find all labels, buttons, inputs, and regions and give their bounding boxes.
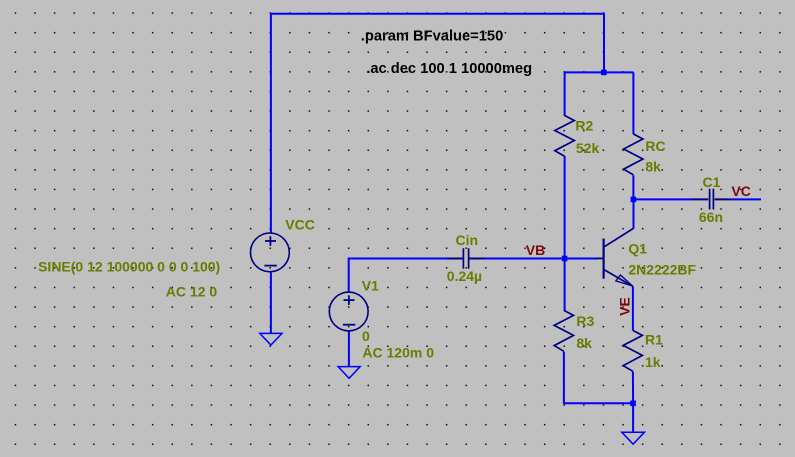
wire: R2 bottom lead to VB node xyxy=(564,156,566,259)
svg-text:C1: C1 xyxy=(703,174,721,190)
voltage source VCC xyxy=(251,233,290,272)
svg-text:8k: 8k xyxy=(576,335,592,351)
svg-text:V1: V1 xyxy=(362,277,379,293)
svg-text:VE: VE xyxy=(617,297,633,316)
resistor R3 xyxy=(554,310,573,351)
ground below bottom node xyxy=(622,432,645,444)
wire: VB node down to R3 xyxy=(564,259,566,311)
resistor R2 xyxy=(555,116,575,157)
wire: C1 right plate to VC stub end xyxy=(731,198,761,200)
resistor R1 xyxy=(623,330,642,371)
svg-text:8k: 8k xyxy=(645,159,661,175)
svg-text:SINE(0 12 100000 0 0 0 100): SINE(0 12 100000 0 0 0 100) xyxy=(38,259,220,275)
voltage source V1 xyxy=(329,292,368,331)
svg-text:66n: 66n xyxy=(699,209,723,225)
wire: RC top lead xyxy=(632,72,634,134)
svg-text:52k: 52k xyxy=(576,140,600,156)
wire: V1 source bottom to ground xyxy=(348,331,350,367)
wire: collector node to C1 left plate xyxy=(633,198,692,200)
svg-text:1k: 1k xyxy=(645,354,661,370)
svg-text:R1: R1 xyxy=(645,332,663,348)
svg-text:R3: R3 xyxy=(576,313,594,329)
transistor Q1 xyxy=(596,228,634,286)
capacitor Cin xyxy=(447,248,485,269)
svg-text:.param BFvalue=150: .param BFvalue=150 xyxy=(361,28,503,44)
wire: Cin right plate to VB node to base xyxy=(485,258,599,260)
ground below VCC xyxy=(260,333,282,345)
wire: split horizontal over R2 and RC xyxy=(565,71,634,73)
wire: R1 bottom lead to bottom node xyxy=(632,372,634,404)
junction: bottom node xyxy=(630,401,636,407)
wire: left drop to VCC source xyxy=(270,14,272,233)
svg-text:VCC: VCC xyxy=(285,217,315,233)
junction: collector / C1 node xyxy=(631,197,637,203)
svg-text:2N2222BF: 2N2222BF xyxy=(628,261,696,277)
svg-text:RC: RC xyxy=(645,138,665,154)
resistor RC xyxy=(624,134,643,175)
svg-text:0: 0 xyxy=(362,328,370,344)
ground below V1 xyxy=(338,367,360,379)
junction: VB node xyxy=(562,256,568,262)
wire: top rail VCC to main drop xyxy=(271,14,604,73)
capacitor C1 xyxy=(692,189,731,210)
svg-text:0.24µ: 0.24µ xyxy=(447,268,482,284)
wire: R2 top lead xyxy=(564,72,566,116)
wire: R3 bottom lead, corner, to bottom node xyxy=(564,352,633,404)
wire: emitter down to R1 xyxy=(632,286,634,330)
svg-text:AC 12 0: AC 12 0 xyxy=(166,283,218,299)
svg-text:AC 120m 0: AC 120m 0 xyxy=(362,345,434,361)
wire: RC bottom lead to collector node xyxy=(632,175,634,199)
svg-text:Q1: Q1 xyxy=(628,240,647,256)
wire: collector vertical xyxy=(633,199,635,228)
svg-text:Cin: Cin xyxy=(456,232,479,248)
junction: top split node xyxy=(601,70,607,76)
svg-text:VC: VC xyxy=(731,183,750,199)
svg-text:VB: VB xyxy=(526,242,545,258)
svg-text:.ac dec 100 1 10000meg: .ac dec 100 1 10000meg xyxy=(366,61,532,77)
wire: VCC source bottom to ground xyxy=(270,272,272,334)
wire: bottom node to ground xyxy=(632,403,634,432)
svg-text:R2: R2 xyxy=(575,118,593,134)
wire: V1 top corner to Cin left plate xyxy=(349,259,448,293)
